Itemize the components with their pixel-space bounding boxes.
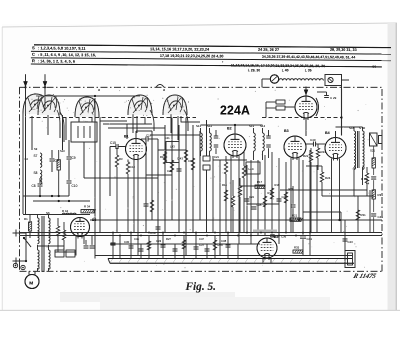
pickup jack 2 <box>21 265 25 269</box>
svg-text:C43: C43 <box>348 240 354 244</box>
tuning section S5 <box>163 95 187 115</box>
svg-text:R35: R35 <box>294 246 300 250</box>
wire rail y196 <box>322 195 374 197</box>
wire y212 link <box>303 211 341 213</box>
svg-text:L44: L44 <box>249 167 254 171</box>
svg-text:C37: C37 <box>199 243 205 247</box>
frame right border <box>381 89 383 271</box>
wire aerial down-lead <box>25 87 27 215</box>
wire rail y190 <box>280 189 367 191</box>
svg-text:R 36: R 36 <box>361 177 367 181</box>
svg-text:S8: S8 <box>34 171 38 175</box>
svg-text:Fig. 5.: Fig. 5. <box>185 281 216 293</box>
resistor R10 <box>191 158 194 170</box>
wire osc section links <box>181 116 200 122</box>
output transformer S18 primary <box>354 131 356 169</box>
svg-text:R 44: R 44 <box>62 209 68 213</box>
svg-text:34,35,36 37,39 40,41,42,43,50,: 34,35,36 37,39 40,41,42,43,50,46,46,47,5… <box>262 55 355 60</box>
scan speckles <box>25 116 26 117</box>
svg-text:a: a <box>163 88 165 92</box>
capacitor C39b <box>173 248 178 250</box>
wire bundle bend to B1 <box>127 117 145 139</box>
resistor R1 fuse <box>29 222 32 231</box>
wire mixer right lead <box>317 91 327 93</box>
capacitor C46 <box>371 213 376 215</box>
component box L2 <box>55 250 64 257</box>
svg-text:C8: C8 <box>32 184 36 188</box>
table rule 1 <box>34 45 391 48</box>
resistor R30 <box>147 241 150 250</box>
tube B1 <box>126 139 147 160</box>
capacitor C6 <box>50 158 55 160</box>
resistor R17 hatched <box>255 185 265 188</box>
wire rail y220 HT <box>90 219 382 221</box>
wire lamp chain left lead <box>262 78 271 80</box>
svg-text:C45: C45 <box>134 237 139 241</box>
wire rail y232 long <box>20 232 382 234</box>
resistor R15 <box>231 196 234 207</box>
wire horizontal y178 left <box>84 177 158 179</box>
svg-text:C10: C10 <box>72 184 78 188</box>
capacitor C18 <box>177 168 182 170</box>
motor leads <box>28 271 30 274</box>
svg-text:C33: C33 <box>156 239 162 243</box>
resistor R39 <box>372 190 375 199</box>
svg-text:R28: R28 <box>218 243 224 247</box>
svg-text:C36: C36 <box>281 235 287 239</box>
junction dots on rails <box>112 232 114 234</box>
grey pencil streak <box>253 230 277 233</box>
wire B4 anode top <box>335 131 337 138</box>
wire x358 vertical <box>357 196 359 233</box>
wire B2 pins down <box>230 156 232 233</box>
thermal cutout circle <box>270 75 278 83</box>
coil can box below S3 <box>71 122 97 142</box>
svg-text:C25: C25 <box>257 203 262 207</box>
wire S3 legs <box>78 117 80 122</box>
wire bundle horizontal y128 <box>108 127 165 129</box>
tuning section S2 <box>38 95 60 115</box>
svg-text:R3: R3 <box>119 157 123 161</box>
oscillator block box <box>166 142 179 163</box>
svg-text:R23: R23 <box>321 150 327 154</box>
capacitor C43 <box>343 238 348 240</box>
resistor R20 <box>284 192 287 203</box>
resistor R14 <box>224 190 227 201</box>
wafer S1 left leg wire <box>22 114 24 214</box>
wire B5 pins <box>262 258 264 263</box>
wire bundle horizontal y124 <box>103 123 152 125</box>
wire rail y255 <box>95 255 352 257</box>
tube B2 <box>224 134 246 156</box>
wire curved dome legs <box>60 112 64 142</box>
svg-text:C30: C30 <box>124 240 130 244</box>
svg-text:C40: C40 <box>310 138 316 142</box>
capacitor C15 grid <box>115 144 117 149</box>
tube B5 <box>257 238 277 258</box>
capacitor C23 <box>252 206 257 208</box>
svg-text:17,18 19,20,21 22,23,24,25,26: 17,18 19,20,21 22,23,24,25,26 28 4,30 <box>160 54 224 58</box>
resistor R12 under B2 <box>224 162 227 174</box>
mains plug pin 2 <box>13 260 27 262</box>
wire middle verticals group A <box>145 139 147 233</box>
svg-text:L 29, 30: L 29, 30 <box>248 68 261 72</box>
resistor R21 hatched <box>290 218 301 221</box>
transformer core <box>41 216 43 272</box>
svg-text:C35: C35 <box>270 235 276 239</box>
svg-text:C12: C12 <box>188 159 193 163</box>
resistor R22 <box>309 152 312 162</box>
svg-text:B4: B4 <box>325 131 330 135</box>
table rule 4 <box>31 64 382 67</box>
component cluster L44 box <box>246 162 260 174</box>
svg-text:M: M <box>29 281 33 287</box>
tuning section S1 <box>23 94 49 114</box>
wire B1 cathode leads <box>133 160 135 233</box>
wire pair under S4 dome <box>132 114 134 133</box>
svg-text:C46: C46 <box>378 215 384 219</box>
svg-text:C20: C20 <box>167 169 172 173</box>
speaker field coil R38 <box>372 158 375 168</box>
chassis bar right end block <box>345 251 355 268</box>
capacitor C8 <box>38 183 43 185</box>
wire hop at x205 <box>206 120 208 156</box>
svg-text:R1: R1 <box>24 217 28 221</box>
capacitor C33 <box>161 244 166 246</box>
svg-text:R20: R20 <box>289 187 294 191</box>
capacitor C32b <box>139 248 144 250</box>
wire long verticals right mesh <box>212 156 214 233</box>
svg-text:R39: R39 <box>378 193 384 197</box>
output transformer S40 secondary <box>363 131 365 169</box>
wire trimmer leads <box>266 101 276 103</box>
resistor R7 <box>170 160 173 172</box>
osc padder trimmers small boxes <box>203 156 210 161</box>
wire earth lead <box>44 87 46 110</box>
svg-text:C24: C24 <box>249 195 254 199</box>
svg-text:S9: S9 <box>34 147 38 151</box>
transformer leads <box>353 127 355 131</box>
mains transformer primary S6 <box>38 218 40 244</box>
speaker L26 <box>370 133 378 146</box>
wire T1 T2 tops to rail <box>201 124 263 126</box>
junction dots rail2 <box>119 235 121 237</box>
capacitor C10 <box>67 180 72 182</box>
resistor R13 <box>242 166 245 178</box>
svg-text:R14: R14 <box>222 183 227 187</box>
svg-text:R11: R11 <box>160 155 165 159</box>
IF transformer T2 winding S13 <box>254 133 256 151</box>
svg-text:44: 44 <box>366 182 370 186</box>
wire left section bottom joins <box>23 195 69 197</box>
capacitor C30 <box>129 245 134 247</box>
svg-text:C 29: C 29 <box>330 96 337 100</box>
wire horizontal y150 mid <box>158 149 186 151</box>
wire B2 anode top <box>234 125 236 134</box>
wire top can links <box>87 97 140 99</box>
wire pair under S5 dome <box>170 114 172 133</box>
capacitor C29 <box>324 95 329 97</box>
resistor R41 R42 pair <box>56 226 59 236</box>
wire B3 pins <box>290 158 292 233</box>
svg-text:a: a <box>98 88 100 92</box>
wire S1 to S2 link <box>32 115 48 150</box>
voltage selector switch <box>24 238 31 247</box>
wire top link W1-W3 <box>36 95 140 97</box>
IF transformer T1 winding S12 <box>210 133 212 151</box>
svg-text:24 25, 26 27: 24 25, 26 27 <box>258 48 279 52</box>
resistor R18 <box>263 196 266 207</box>
wire B4 pins <box>331 159 333 233</box>
capacitor C31 <box>291 204 296 206</box>
wire bundle horizontal y121 <box>100 120 127 122</box>
svg-text:C19: C19 <box>150 231 156 235</box>
chassis bar <box>108 258 352 260</box>
svg-text:224A: 224A <box>220 102 250 118</box>
tuning gang coupling dashed line right part <box>262 117 341 119</box>
capacitor C26 <box>277 198 282 200</box>
svg-text:C47: C47 <box>199 237 204 241</box>
rectifier tube B6 <box>71 218 90 237</box>
wire rail y244 <box>110 243 260 245</box>
wire from lamp box to frame <box>341 80 343 89</box>
mains transformer secondary <box>49 218 51 244</box>
resistor R28 <box>213 240 216 250</box>
svg-text:C15: C15 <box>110 141 116 145</box>
resistor R35 <box>293 250 303 253</box>
aerial arrow 1 <box>25 74 27 87</box>
wire B1 grid left <box>109 147 111 197</box>
tube B4 <box>325 138 346 159</box>
svg-text:R19: R19 <box>275 183 280 187</box>
svg-text:R21: R21 <box>292 214 298 218</box>
svg-text:B6: B6 <box>92 218 96 222</box>
resistor R4 below B1 <box>115 155 118 167</box>
capacitor C44 <box>371 176 376 178</box>
svg-text:C9: C9 <box>72 156 76 160</box>
dial lamp L35 box <box>325 75 342 86</box>
svg-text:B3: B3 <box>284 129 289 133</box>
wire rail y214 to transformer <box>23 214 90 216</box>
capacitor C4 C5 pair <box>84 245 89 247</box>
wire horizontal y175 mid <box>146 174 172 176</box>
table rule 3 <box>31 58 391 61</box>
tube B3 <box>284 136 306 158</box>
wire mains vertical <box>25 233 27 261</box>
arrow into mixer tube <box>305 87 307 96</box>
svg-text:R18: R18 <box>268 191 273 195</box>
svg-text:S: S <box>32 45 35 50</box>
svg-text:S6: S6 <box>46 211 50 215</box>
capacitor C14 <box>144 203 149 205</box>
rectifier leads <box>75 236 77 256</box>
svg-text:R24: R24 <box>325 176 331 180</box>
wire rail y235 long <box>20 235 382 237</box>
capacitor C34 <box>300 235 306 237</box>
svg-text:B2: B2 <box>227 127 232 131</box>
ballast resistor loop chain <box>279 79 323 81</box>
svg-text:R27: R27 <box>166 237 171 241</box>
aerial arrow 2 <box>44 74 46 87</box>
svg-text:C17: C17 <box>146 134 152 138</box>
wire bottom-left joins <box>37 245 64 247</box>
pickup jack 1 <box>13 263 17 267</box>
svg-text:: 1,2,3,4,5, 6,8 10,107, 9,11: : 1,2,3,4,5, 6,8 10,107, 9,11 <box>38 45 86 50</box>
wire middle verticals group B <box>178 125 180 233</box>
wire horizontal y201 <box>33 200 90 202</box>
capacitor C40 coupling <box>312 142 314 147</box>
resistor R8 <box>150 200 153 212</box>
resistor R31 <box>356 210 359 220</box>
wire mixer bottom <box>305 118 307 136</box>
resistor R2 <box>57 160 60 170</box>
wire x100 vertical <box>99 117 101 233</box>
wire c29 branch box <box>291 101 327 104</box>
svg-text:R 34: R 34 <box>84 205 90 209</box>
drawing number R11475 <box>351 273 377 280</box>
title 224A <box>220 102 250 118</box>
wire can to grid <box>83 142 85 178</box>
svg-text:S10: S10 <box>60 149 65 153</box>
svg-text:C 43: C 43 <box>177 157 183 161</box>
mains plug pin 1 <box>13 232 27 234</box>
svg-text:S21: S21 <box>370 149 376 153</box>
svg-text:: 14, 36, 1 2: : 14, 36, 1 2, 3, 4, 5, 6 <box>38 59 75 63</box>
capacitor C17 <box>145 137 147 142</box>
capacitor C19 <box>156 226 161 228</box>
tuning section S3 <box>75 97 99 117</box>
svg-text:L43: L43 <box>170 145 175 149</box>
capacitor C35 near B5 <box>270 234 274 236</box>
rectifier smoothing coil R44 <box>62 213 76 215</box>
wire verticals above chassis bar <box>112 233 114 259</box>
svg-text:C2: C2 <box>25 157 29 161</box>
chassis hatching <box>110 259 347 263</box>
svg-text:: 5 ,11, 6 4, 9 ,10, 14, 1: : 5 ,11, 6 4, 9 ,10, 14, 12, 3 15, 16, <box>38 53 96 57</box>
resistor R23 <box>316 148 319 158</box>
capacitor C9 <box>67 156 72 158</box>
svg-text:R: R <box>32 58 35 63</box>
mixer tube B3 upper <box>295 96 317 118</box>
capacitor C22 <box>245 198 250 200</box>
tuning section S4 <box>128 95 152 115</box>
trimmer stack C27 <box>276 100 285 104</box>
coil S8 <box>40 170 42 184</box>
svg-text:R 11475: R 11475 <box>351 273 377 280</box>
frame bottom border <box>20 270 383 272</box>
T2 tuning caps <box>266 135 270 137</box>
svg-text:C41: C41 <box>165 136 171 140</box>
wire x345 vertical right <box>344 220 346 251</box>
resistor R9 <box>184 150 187 162</box>
tuning gang coupling dashed line <box>30 117 196 119</box>
transformer core lines <box>357 131 359 168</box>
resistor R6 <box>163 152 166 164</box>
resistor R36 R37 column <box>365 173 368 183</box>
svg-text:B1: B1 <box>124 135 129 139</box>
capacitor C16 small <box>111 242 116 244</box>
resistor R29 <box>182 240 185 249</box>
wire mixer to left <box>285 106 295 108</box>
svg-text:44: 44 <box>372 65 376 69</box>
coil S7 aerial <box>40 153 42 167</box>
wire hop on top bus <box>156 84 164 87</box>
motor M <box>25 275 39 289</box>
resistor R16 <box>238 186 241 197</box>
frame left border <box>19 87 21 271</box>
transformer leads <box>37 215 39 219</box>
svg-text:13,14, 15,16 18,17,19,20,: 13,14, 15,16 18,17,19,20, 22,23,24 <box>150 47 210 51</box>
svg-text:C21: C21 <box>214 155 219 159</box>
resistor R34 hatched <box>81 210 94 213</box>
frame top border <box>20 86 383 88</box>
svg-text:L 40: L 40 <box>282 68 289 72</box>
svg-text:C28: C28 <box>282 195 287 199</box>
transformer lower windings <box>38 250 40 269</box>
table rule 2 <box>31 51 391 54</box>
svg-text:S7: S7 <box>34 154 38 158</box>
capacitor C42b <box>205 248 210 250</box>
svg-text:C: C <box>32 52 35 57</box>
wire x341 strong vertical <box>341 89 343 136</box>
wire y135 osc <box>150 134 200 136</box>
svg-text:C41: C41 <box>307 237 313 241</box>
svg-text:28, 29,30 31, 33: 28, 29,30 31, 33 <box>330 48 357 52</box>
svg-text:R22: R22 <box>303 154 309 158</box>
wire left vertical pair under S2 <box>62 115 64 150</box>
IF transformer T2 winding S14 <box>263 133 265 151</box>
svg-text:L 35: L 35 <box>305 68 312 72</box>
IF transformer T1 winding S11 <box>201 133 203 151</box>
capacitor C38 <box>226 244 231 246</box>
wire x95 long vertical <box>94 98 96 259</box>
svg-text:R31: R31 <box>361 213 367 217</box>
svg-text:C13: C13 <box>130 165 135 169</box>
svg-text:R17: R17 <box>257 180 263 184</box>
wire x370 vertical <box>369 190 371 233</box>
component box R45 <box>66 250 75 257</box>
resistor R24 <box>320 172 323 182</box>
wire B1 anode <box>135 131 137 139</box>
resistor R5 <box>126 162 129 174</box>
capacitor C37 <box>194 246 199 248</box>
resistor R19 <box>270 188 273 199</box>
T1 tuning caps <box>214 135 218 137</box>
wire right mesh horizontals <box>213 159 247 161</box>
